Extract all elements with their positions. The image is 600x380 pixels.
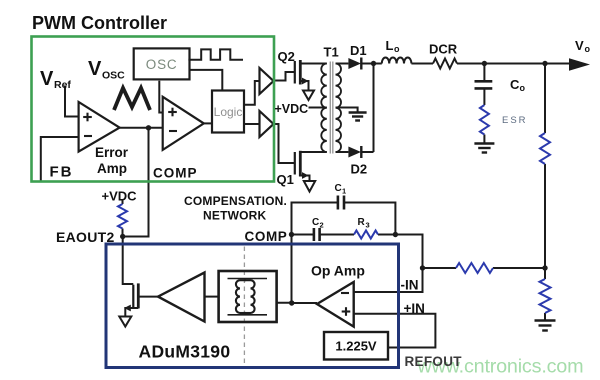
svg-text:Logic: Logic (214, 105, 243, 119)
svg-text:T1: T1 (324, 45, 339, 60)
svg-text:1: 1 (342, 187, 346, 196)
svg-text:1.225V: 1.225V (335, 339, 377, 354)
svg-text:Q1: Q1 (277, 172, 294, 187)
svg-text:C: C (312, 217, 319, 228)
svg-text:OSC: OSC (146, 57, 178, 72)
svg-text:ADuM3190: ADuM3190 (139, 342, 231, 362)
svg-text:COMPENSATION.: COMPENSATION. (184, 194, 287, 208)
svg-text:PWM Controller: PWM Controller (32, 13, 167, 33)
svg-text:ESR: ESR (502, 115, 528, 126)
svg-text:+VDC: +VDC (275, 102, 309, 116)
svg-text:D2: D2 (351, 162, 368, 177)
svg-text:-IN: -IN (401, 278, 419, 293)
svg-text:Q2: Q2 (278, 49, 295, 64)
svg-text:COMP: COMP (153, 166, 198, 181)
svg-text:o: o (520, 83, 526, 93)
svg-text:DCR: DCR (429, 42, 458, 57)
svg-text:C: C (335, 183, 342, 194)
svg-text:FB: FB (50, 164, 74, 181)
svg-text:NETWORK: NETWORK (203, 209, 267, 223)
svg-text:+VDC: +VDC (102, 189, 138, 204)
svg-text:Amp: Amp (97, 161, 127, 176)
svg-text:o: o (585, 44, 591, 54)
svg-text:Ref: Ref (54, 79, 71, 91)
svg-text:V: V (88, 58, 102, 80)
svg-text:REFOUT: REFOUT (405, 354, 463, 369)
svg-text:V: V (40, 68, 54, 90)
svg-text:o: o (394, 44, 400, 54)
svg-text:D1: D1 (350, 43, 367, 58)
svg-text:L: L (386, 38, 394, 53)
svg-text:Error: Error (95, 145, 129, 160)
svg-text:COMP: COMP (245, 229, 288, 244)
svg-text:V: V (575, 38, 584, 53)
svg-text:2: 2 (320, 221, 324, 230)
svg-text:OSC: OSC (102, 70, 125, 82)
svg-text:3: 3 (366, 221, 370, 230)
svg-text:+IN: +IN (404, 301, 425, 316)
svg-text:R: R (358, 217, 366, 228)
svg-text:C: C (510, 77, 520, 92)
svg-text:EAOUT2: EAOUT2 (56, 229, 115, 245)
svg-text:Op Amp: Op Amp (311, 263, 365, 279)
